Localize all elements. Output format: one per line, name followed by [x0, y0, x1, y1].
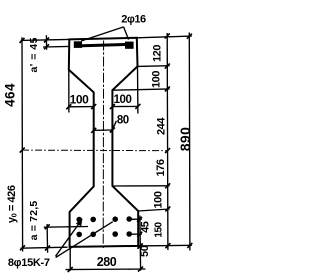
2φ16 leader long	[81, 27, 123, 41]
flange bottom extension right	[137, 65, 169, 68]
strand dots row 2	[76, 232, 82, 238]
rebar level extension line	[43, 45, 69, 48]
890 outer dimension line	[188, 33, 191, 251]
svg-text:8φ15K-7: 8φ15K-7	[8, 257, 50, 269]
svg-text:120: 120	[152, 45, 164, 62]
280 extension left	[69, 249, 71, 271]
haunch bottom extension right	[112, 89, 169, 90]
strand centroid extension line	[44, 226, 88, 229]
stirrup bar line in top flange	[74, 44, 132, 46]
block top extension right	[138, 209, 169, 211]
svg-text:100: 100	[151, 71, 163, 88]
a'=45 dimension line	[45, 35, 47, 50]
svg-text:a = 72,5: a = 72,5	[28, 201, 40, 241]
rebar dot left (2φ16)	[74, 41, 82, 48]
280 dimension line	[66, 268, 146, 271]
svg-text:50: 50	[139, 245, 151, 257]
45/50 small dimension line	[139, 216, 142, 271]
8φ15K-7 leader A	[56, 222, 81, 257]
top extension to right	[137, 36, 192, 38]
2φ16 leader short	[124, 27, 129, 40]
svg-text:890: 890	[177, 127, 193, 152]
leader arrowhead on strands	[76, 218, 83, 226]
strand row1 extension	[132, 218, 143, 220]
svg-text:100: 100	[70, 92, 90, 106]
top edge extension to left	[21, 39, 70, 40]
left 100 dimension (flange face ext overshoot)	[68, 70, 70, 113]
beam cross-section outline	[69, 38, 138, 247]
svg-text:280: 280	[97, 255, 117, 269]
right chain dimension line	[166, 33, 169, 250]
svg-text:80: 80	[117, 115, 129, 127]
web 80 dimension line	[94, 129, 113, 131]
svg-text:464: 464	[2, 83, 17, 107]
right 100 dimension line	[112, 105, 137, 107]
centroid axis (horizontal dash-dot)	[22, 149, 168, 152]
svg-text:2φ16: 2φ16	[121, 14, 146, 26]
svg-text:100: 100	[153, 191, 165, 208]
8φ15K-7 leader B	[56, 222, 113, 258]
bottom edge extension to left	[21, 247, 68, 248]
svg-text:45: 45	[140, 221, 152, 233]
right 100 dimension (flange face ext overshoot)	[137, 66, 139, 113]
strand dots row 1	[76, 217, 82, 223]
svg-text:y0 = 426: y0 = 426	[6, 185, 19, 223]
bottom extension to right	[138, 244, 192, 247]
svg-text:244: 244	[156, 117, 168, 135]
rebar dot right (2φ16)	[125, 42, 134, 49]
80 leader	[112, 121, 116, 130]
svg-text:176: 176	[155, 159, 167, 176]
web bottom extension right	[112, 185, 169, 187]
svg-text:100: 100	[114, 94, 132, 106]
strand row2 extension	[132, 233, 143, 235]
left main dimension line (464 / y0=426)	[21, 37, 24, 251]
section centerline (vertical axis)	[102, 41, 104, 249]
svg-text:150: 150	[154, 221, 165, 237]
left 100 dimension line	[69, 106, 94, 108]
a=72,5 dimension line	[46, 224, 49, 253]
svg-text:a' = 45: a' = 45	[28, 37, 40, 72]
